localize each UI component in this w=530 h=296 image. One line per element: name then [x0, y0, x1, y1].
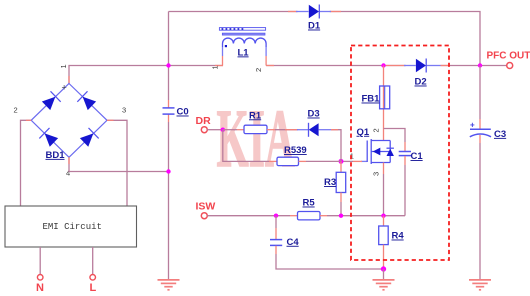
svg-text:C3: C3	[494, 129, 506, 140]
resistor R5	[298, 198, 321, 220]
capacitor C1	[384, 129, 424, 216]
svg-text:2: 2	[372, 128, 381, 132]
capacitor C0	[163, 107, 189, 118]
svg-text:D3: D3	[308, 109, 320, 120]
terminal PFC OUT	[507, 63, 513, 69]
resistor R539	[277, 145, 307, 166]
junction node FB1 top	[381, 63, 385, 67]
junction node pin4 / rail	[166, 169, 170, 173]
wire D2 to PFC OUT	[441, 65, 507, 67]
svg-text:+: +	[470, 121, 475, 130]
svg-text:DR: DR	[196, 115, 212, 127]
wire ISW to R5	[207, 215, 290, 217]
ground (center, R4/C4)	[373, 280, 395, 290]
junction node at C0 rail / L1 wire	[166, 63, 170, 67]
svg-text:D1: D1	[308, 21, 321, 32]
junction node C4 top	[274, 214, 278, 218]
capacitor C3	[470, 121, 506, 140]
wire top rail left	[169, 11, 298, 13]
wire R5 to C1 bottom	[320, 215, 327, 217]
bridge BD1	[14, 64, 127, 177]
dashed highlight box	[351, 46, 449, 261]
wire EMI to L	[92, 247, 94, 274]
svg-text:Q1: Q1	[357, 127, 370, 138]
wire Q1 source	[383, 163, 385, 175]
svg-text:C4: C4	[287, 237, 300, 248]
diode upper-right	[77, 91, 97, 111]
svg-text:N: N	[36, 282, 44, 294]
svg-text:R4: R4	[392, 231, 405, 242]
svg-text:L1: L1	[238, 47, 250, 58]
svg-text:ISW: ISW	[196, 201, 216, 213]
capacitor C4	[270, 216, 299, 254]
wire bridge pin3 to EMI	[107, 120, 127, 206]
diode D1	[288, 5, 341, 32]
diode upper-left	[41, 91, 61, 111]
svg-text:C1: C1	[411, 151, 424, 162]
resistor R3	[324, 161, 346, 215]
junction node gate	[339, 159, 344, 164]
svg-text:R1: R1	[249, 110, 262, 121]
wire gate junction to Q1	[341, 160, 353, 162]
wire L1 to D2	[266, 65, 406, 67]
svg-text:D2: D2	[415, 77, 427, 88]
svg-text:3: 3	[372, 172, 381, 176]
junction node output	[478, 63, 482, 67]
wire R1 to D3	[267, 129, 275, 131]
wire EMI to N	[39, 247, 41, 274]
svg-text:1: 1	[59, 64, 68, 68]
svg-text:EMI Circuit: EMI Circuit	[43, 222, 102, 232]
terminal ISW	[201, 213, 207, 219]
wire bridge pin2 to EMI	[21, 120, 32, 206]
wire C3 branch	[479, 66, 481, 120]
resistor R1	[244, 110, 267, 133]
wire DR junction down to R539	[223, 130, 269, 162]
wire DR to junction	[207, 129, 223, 131]
watermark KIA	[217, 94, 295, 185]
EMI Circuit box	[5, 206, 137, 247]
svg-text:L: L	[90, 282, 97, 294]
ground (right, C3)	[469, 280, 491, 290]
terminal N	[37, 275, 43, 281]
svg-text:+: +	[62, 83, 67, 93]
wire junction to ground	[383, 269, 385, 280]
diode lower-left	[39, 128, 59, 148]
transistor Q1	[350, 127, 394, 176]
wire DR junction to R1	[223, 129, 237, 131]
wire R539 to gate junction	[299, 160, 307, 162]
svg-text:2: 2	[254, 68, 263, 72]
svg-text:C0: C0	[177, 107, 189, 118]
svg-text:PFC OUT: PFC OUT	[487, 51, 530, 62]
fuse FB1	[362, 86, 390, 109]
svg-text:BD1: BD1	[46, 150, 66, 161]
inductor L1	[211, 28, 267, 72]
wire C3 to ground	[479, 135, 481, 143]
wire bridge+ to L1	[69, 66, 223, 84]
ground (left, bottom of C0 rail)	[158, 280, 180, 290]
terminal DR	[201, 127, 207, 133]
wire left vertical (rect+ rail)	[168, 12, 170, 101]
svg-text:KIA: KIA	[217, 94, 295, 185]
diode D3 (pointing left)	[285, 109, 331, 137]
svg-text:FB1: FB1	[362, 94, 381, 105]
svg-text:R3: R3	[324, 177, 336, 188]
terminal L	[90, 275, 96, 281]
junction node R3 bottom	[339, 214, 343, 218]
svg-text:R539: R539	[284, 145, 307, 156]
diode lower-right	[79, 128, 99, 148]
wire D3 to gate junction	[331, 130, 341, 162]
junction node Q1 source / R4	[381, 214, 385, 218]
wire top rail right	[330, 12, 480, 66]
junction node ground	[381, 266, 386, 271]
resistor R4	[379, 216, 405, 269]
svg-text:2: 2	[14, 106, 18, 115]
fuse FB1 lead	[383, 66, 385, 141]
junction node DR	[221, 128, 225, 132]
svg-text:3: 3	[122, 106, 126, 115]
svg-text:R5: R5	[303, 198, 316, 209]
svg-text:1: 1	[211, 65, 220, 69]
wire bridge pin4 to ground rail	[69, 157, 169, 171]
diode D2	[404, 59, 441, 88]
wire C4 bottom to ground junction	[276, 254, 384, 269]
